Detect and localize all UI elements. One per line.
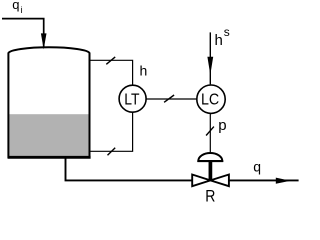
wire: top tap from tank to LT (90, 60, 133, 85)
svg-text:R: R (205, 188, 215, 203)
arrowhead setpoint (207, 57, 213, 75)
wire: outlet pipe from tank to valve (66, 158, 193, 180)
tank shell (8, 47, 91, 158)
svg-text:q: q (253, 158, 261, 174)
slash on LT-LC signal (164, 95, 174, 102)
valve stem (209, 161, 213, 180)
svg-text:h: h (140, 63, 148, 79)
slash on top tap (106, 57, 115, 64)
slash on LC-valve signal (206, 127, 214, 136)
slash on bottom tap (108, 148, 116, 156)
svg-text:q: q (12, 0, 19, 12)
arrowhead inflow (41, 33, 47, 49)
wire: signal LC to valve actuator (209, 113, 211, 152)
svg-text:s: s (224, 25, 230, 39)
svg-text:h: h (215, 32, 223, 49)
level transmitter LT (119, 85, 146, 112)
svg-text:p: p (218, 117, 226, 134)
svg-text:LT: LT (124, 92, 139, 109)
liquid in tank (9, 114, 88, 156)
wire: signal LT to LC (146, 98, 197, 100)
svg-text:LC: LC (201, 92, 219, 109)
wire: inflow pipe q_i (2, 19, 44, 48)
valve body R (bowtie) (192, 175, 210, 187)
wire: setpoint h_s into LC (209, 32, 211, 84)
wire: bottom tap from LT to tank (90, 112, 133, 151)
valve actuator dome (198, 153, 222, 161)
svg-text:i: i (21, 5, 23, 15)
wire: outflow pipe q (229, 179, 299, 181)
arrowhead outflow (276, 178, 291, 184)
level controller LC (197, 85, 225, 113)
